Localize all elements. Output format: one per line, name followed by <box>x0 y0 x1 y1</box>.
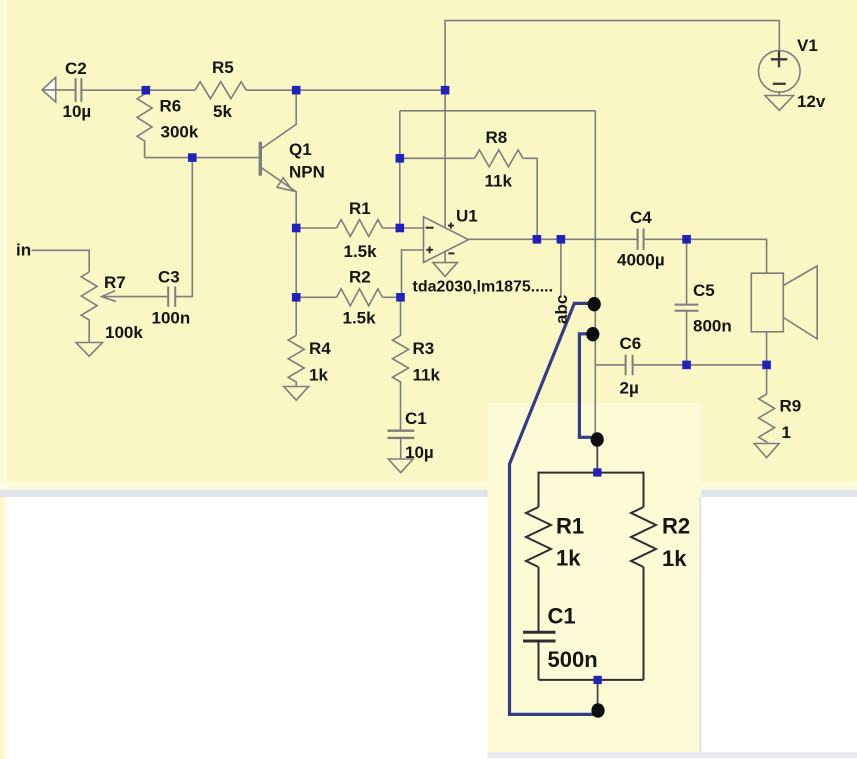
node R8 left junction <box>396 154 405 163</box>
node C5 top junction <box>682 235 691 244</box>
svg-text:R9: R9 <box>780 397 802 416</box>
wire plus input <box>402 250 424 297</box>
node Q1 collector junction <box>292 86 301 95</box>
capacitor C6 <box>626 355 633 376</box>
opamp V+ pin wire top rail <box>445 21 779 227</box>
svg-text:NPN: NPN <box>289 163 325 182</box>
opamp input markers <box>426 223 455 254</box>
resistor R2 <box>337 289 383 306</box>
node emitter R1 junction <box>292 224 301 233</box>
node subcircuit top junction <box>593 468 601 476</box>
node subcircuit bottom junction <box>594 676 602 684</box>
svg-text:C1: C1 <box>548 604 576 629</box>
subcircuit right leg <box>643 472 645 507</box>
wire C6 right <box>633 364 767 366</box>
annotation blue wire 1 <box>510 303 596 714</box>
ground opamp <box>433 263 458 277</box>
svg-text:C4: C4 <box>630 208 652 227</box>
svg-text:R4: R4 <box>309 339 331 358</box>
subcircuit bottom rail <box>539 679 644 681</box>
resistor R7 <box>81 272 97 343</box>
subcircuit right leg lower <box>643 567 645 680</box>
svg-text:C2: C2 <box>65 59 87 78</box>
svg-text:300k: 300k <box>161 123 199 142</box>
opamp V- pin <box>444 252 446 263</box>
svg-text:12v: 12v <box>797 92 826 111</box>
node abc stub junction <box>557 235 566 244</box>
node R8 output junction <box>533 235 542 244</box>
resistor R8 <box>475 150 524 167</box>
svg-text:R5: R5 <box>212 58 234 77</box>
svg-text:1k: 1k <box>662 546 687 571</box>
transistor Q1 base bar <box>259 142 262 176</box>
dangling abc stub <box>560 239 562 297</box>
wire to sub C1 <box>538 567 540 632</box>
svg-text:R2: R2 <box>349 268 371 287</box>
resistor R3 <box>393 297 409 429</box>
svg-text:C3: C3 <box>158 268 180 287</box>
svg-text:500n: 500n <box>548 647 598 672</box>
speaker box <box>751 273 783 332</box>
resistor R9 <box>759 365 775 444</box>
wire C3 to wiper <box>104 296 168 298</box>
svg-text:1.5k: 1.5k <box>343 309 377 328</box>
bottom gray strip <box>488 752 857 759</box>
wire R8 right <box>523 158 537 239</box>
wire input to C2 <box>42 89 76 91</box>
wire in <box>32 250 90 272</box>
capacitor C1 <box>388 431 415 438</box>
node emitter R2 junction <box>292 293 301 302</box>
solder dot D <box>591 703 604 717</box>
node speaker R9 junction <box>762 361 771 370</box>
resistor R4 <box>288 335 304 386</box>
node C5 bottom junction <box>682 361 691 370</box>
svg-text:R6: R6 <box>160 97 182 116</box>
ground R9 <box>754 444 779 458</box>
ground R4 <box>284 387 309 401</box>
resistor R6 <box>137 90 152 157</box>
V1 bottom wire <box>778 92 780 95</box>
svg-text:R8: R8 <box>486 128 508 147</box>
node C3 base junction <box>188 153 197 162</box>
svg-text:11k: 11k <box>485 172 513 191</box>
wire speaker bottom <box>766 332 768 365</box>
subcircuit resistor R1 <box>526 507 551 567</box>
svg-text:C6: C6 <box>620 334 642 353</box>
Q1 emitter <box>262 168 297 228</box>
svg-text:4000µ: 4000µ <box>617 251 665 270</box>
svg-text:V1: V1 <box>797 36 818 55</box>
svg-text:1k: 1k <box>556 546 581 571</box>
node R6 top junction <box>142 86 151 95</box>
subcircuit bottom feed <box>597 680 599 711</box>
capacitor C4 <box>638 229 644 250</box>
wire R4 top <box>295 297 297 335</box>
wire C1 to gnd <box>400 438 402 459</box>
subcircuit feed wire top <box>596 440 598 473</box>
svg-text:5k: 5k <box>213 102 232 121</box>
wire C6 left <box>595 364 625 366</box>
Q1 emitter arrow <box>277 178 293 191</box>
wire C4 to speaker <box>644 239 767 273</box>
resistor R5 <box>195 82 246 99</box>
svg-text:abc: abc <box>552 295 571 324</box>
svg-text:R1: R1 <box>349 199 371 218</box>
svg-text:R3: R3 <box>413 339 435 358</box>
svg-text:U1: U1 <box>456 207 478 226</box>
capacitor C3 <box>168 286 175 306</box>
R8 loop top <box>400 110 596 112</box>
wire output <box>469 238 638 240</box>
node noninverting input junction <box>396 293 405 302</box>
wire emitter chain <box>295 228 297 297</box>
wire C2 to R5 <box>81 89 195 91</box>
svg-text:2µ: 2µ <box>620 379 639 398</box>
wire R2 right <box>383 296 401 298</box>
subcircuit resistor R2 <box>631 507 656 567</box>
svg-text:R1: R1 <box>556 514 584 539</box>
node V+ rail junction <box>441 86 450 95</box>
left edge sliver <box>0 497 11 759</box>
speaker horn <box>783 266 817 339</box>
svg-text:1: 1 <box>782 423 791 442</box>
svg-text:10µ: 10µ <box>405 443 434 462</box>
annotation yellow patch <box>488 403 702 752</box>
wire R1 left <box>296 227 336 229</box>
svg-text:10µ: 10µ <box>63 102 92 121</box>
voltage source V1 <box>759 51 801 93</box>
svg-text:1k: 1k <box>309 366 328 385</box>
svg-text:100k: 100k <box>105 323 143 342</box>
solder dot A <box>588 297 601 311</box>
wire R8 left <box>400 157 475 159</box>
capacitor C5 <box>686 239 688 304</box>
svg-text:Q1: Q1 <box>289 140 312 159</box>
svg-text:C1: C1 <box>405 409 427 428</box>
svg-text:1.5k: 1.5k <box>344 242 378 261</box>
subcircuit capacitor C1 <box>523 632 556 641</box>
wire R5 to node <box>246 89 445 91</box>
light band above divider <box>0 481 857 490</box>
wire R1 right to opamp <box>383 227 424 229</box>
subcircuit left leg <box>538 472 540 507</box>
right white panel border <box>700 497 702 752</box>
left edge light band <box>0 0 7 489</box>
annotation blue wire 2 <box>579 334 591 438</box>
main schematic background <box>0 0 857 490</box>
abc net vertical <box>594 111 596 439</box>
solder dot B <box>586 327 599 341</box>
wire R2 left <box>296 296 336 298</box>
svg-text:R7: R7 <box>104 273 126 292</box>
lower white area <box>0 497 857 759</box>
op-amp U1 <box>424 217 469 263</box>
svg-text:C5: C5 <box>693 281 715 300</box>
subcircuit top rail <box>539 472 644 474</box>
resistor R1 <box>337 220 383 237</box>
ground V1 <box>765 96 794 111</box>
V1 plus minus <box>771 51 788 84</box>
R8 loop left vertical <box>399 111 401 228</box>
svg-text:100n: 100n <box>152 309 191 328</box>
wire C3 vertical <box>175 158 192 297</box>
svg-text:in: in <box>16 241 31 260</box>
svg-text:tda2030,lm1875.....: tda2030,lm1875..... <box>413 279 554 296</box>
capacitor C2 <box>76 78 82 102</box>
wire base <box>145 157 259 159</box>
ground C1 <box>388 459 413 473</box>
input terminal triangle <box>42 77 56 102</box>
node inverting input junction <box>396 224 405 233</box>
svg-text:800n: 800n <box>693 317 732 336</box>
divider strip <box>0 490 857 498</box>
svg-text:R2: R2 <box>662 514 690 539</box>
ground R7 <box>76 343 103 357</box>
solder dot C <box>591 432 604 446</box>
Q1 collector <box>262 90 297 148</box>
wiper arrowhead <box>102 291 117 302</box>
svg-text:11k: 11k <box>413 366 441 385</box>
